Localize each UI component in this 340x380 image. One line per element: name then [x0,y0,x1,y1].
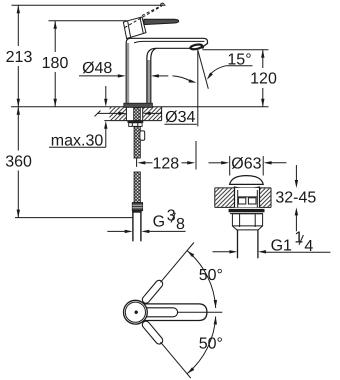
svg-text:G1: G1 [271,237,292,254]
base plate [124,103,153,107]
svg-text:50°: 50° [199,267,223,284]
aerator [190,44,204,50]
top view: body circle [123,300,147,324]
top view: lower swing arc with arrows [187,316,217,373]
top view: ghost lever upper (50deg) [141,279,164,305]
top view: pivot dot [135,311,138,314]
hose hex fitting [132,203,142,211]
drain tailpipe [238,230,258,258]
supply pipe G3/8 [132,211,141,242]
top view: lever (center position) [142,304,207,321]
mounting shank through deck [134,107,141,120]
svg-text:128: 128 [152,156,179,173]
drain cap dome [230,176,264,185]
dimension 32-45 [275,165,317,231]
spout underside and inner edge [147,48,191,103]
svg-text:120: 120 [250,70,277,87]
drain deck cross-section [215,188,271,208]
supply hose upper [134,126,140,158]
cartridge block [123,17,146,39]
svg-text:4: 4 [304,238,313,255]
label Ø34 with arrows [95,109,197,126]
svg-text:Ø48: Ø48 [82,60,112,77]
drain body through deck [235,187,260,208]
svg-text:180: 180 [42,55,69,72]
dimension 360 [5,107,32,218]
lever handle (horizontal) [144,19,179,24]
mounting nut [129,123,142,127]
top view: ray lower [161,342,191,378]
top view: ghost lever lower (50deg) [141,320,164,346]
svg-text:32-45: 32-45 [275,190,316,207]
spout top chamfer line [134,41,204,43]
dimension Ø63 [209,156,287,176]
svg-text:50°: 50° [199,335,223,352]
label Ø48 with arrow leaders [79,60,168,78]
label max.30 with leader and arrows [49,86,108,149]
floor reference line (360 bottom) [15,217,133,219]
svg-text:Ø34: Ø34 [165,109,195,126]
hose clip [140,131,145,140]
faucet side view: deck cross-section [104,107,161,121]
drain cap rim [234,187,260,189]
top view: upper swing arc with arrows [187,251,217,308]
deck reference line [11,106,269,108]
dimension 213 [6,5,33,107]
extension line 180 ref [49,20,128,22]
stream 15deg slant line [198,50,209,89]
svg-text:213: 213 [6,49,33,66]
svg-text:Ø63: Ø63 [231,156,261,173]
lever raised position (dashed) [125,4,164,27]
svg-text:8: 8 [176,216,185,233]
stream vertical extension line [197,50,199,126]
dimension 128 [137,141,196,173]
supply hose lower [134,172,140,203]
svg-text:360: 360 [5,153,32,170]
body shading left [127,43,129,103]
svg-text:G: G [153,214,165,231]
leader arrow to vertical stream line (15deg group left) [173,76,197,83]
body shading right [147,60,150,103]
mounting washer [127,121,143,123]
raised lever tip [161,3,165,6]
faucet body outline [126,38,207,103]
label G3/8 with arrows [107,207,185,233]
extension line top (213 ref) [12,4,166,6]
drain nut [232,214,262,230]
dimension 120 [203,50,277,107]
body outer right edge [151,48,157,103]
label 15deg with curved leader [207,52,253,80]
drain flange [229,209,265,214]
top view: axis extension line [178,311,222,313]
label G1 1/4 with arrows [213,230,331,255]
top view: ray upper [161,243,194,283]
top view: lever inner detail [142,308,178,317]
dimension 180 [42,21,69,107]
centerline tick [136,158,138,167]
